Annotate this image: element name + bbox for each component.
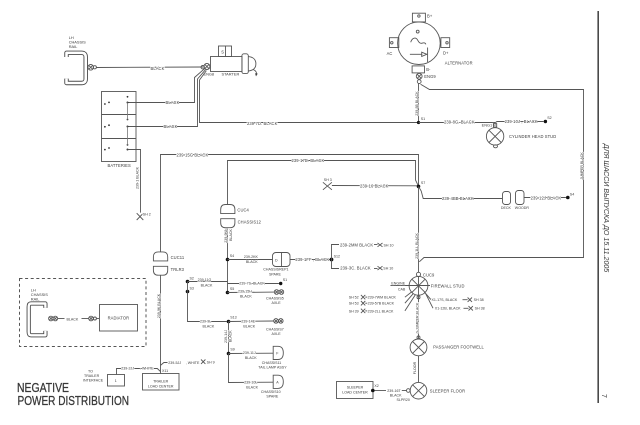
- svg-text:CHASSIS5: CHASSIS5: [266, 296, 284, 300]
- svg-text:BATTERIES: BATTERIES: [108, 163, 132, 168]
- svg-text:239-1 BLACK: 239-1 BLACK: [136, 166, 140, 189]
- svg-text:CUC9: CUC9: [423, 273, 435, 278]
- svg-text:239-2MM BLACK: 239-2MM BLACK: [340, 242, 373, 247]
- svg-text:239-1FF , BLACK: 239-1FF , BLACK: [295, 257, 329, 262]
- svg-text:SH 39: SH 39: [349, 309, 359, 313]
- svg-text:239-2LL BLACK: 239-2LL BLACK: [368, 309, 394, 313]
- svg-text:PASSANGER FOOTWELL: PASSANGER FOOTWELL: [433, 345, 484, 350]
- svg-text:AXLE: AXLE: [272, 301, 282, 305]
- svg-text:S1: S1: [283, 278, 287, 282]
- svg-text:239-8B BLACK: 239-8B BLACK: [415, 91, 419, 116]
- svg-text:S12: S12: [334, 255, 340, 259]
- svg-text:. WHITE: . WHITE: [140, 367, 154, 371]
- svg-text:S2: S2: [190, 276, 194, 280]
- svg-text:239-15H: 239-15H: [238, 290, 252, 294]
- svg-text:BLACK: BLACK: [151, 66, 165, 71]
- svg-text:DECK: DECK: [501, 206, 512, 210]
- svg-text:239-9NN: 239-9NN: [224, 228, 228, 243]
- svg-text:LOAD CENTER: LOAD CENTER: [148, 384, 174, 388]
- svg-text:ДЛЯ ШАССИ ВЫПУСКА ДО 15.11.200: ДЛЯ ШАССИ ВЫПУСКА ДО 15.11.2005: [602, 143, 611, 273]
- svg-text:239-14E: 239-14E: [241, 319, 255, 323]
- svg-text:SPARE: SPARE: [266, 395, 279, 399]
- svg-text:B-: B-: [426, 67, 431, 72]
- svg-text:239-2JJ: 239-2JJ: [121, 367, 134, 371]
- svg-text:SH 52: SH 52: [349, 296, 359, 300]
- svg-text:SLEEPER: SLEEPER: [347, 386, 364, 390]
- svg-text:S4: S4: [570, 192, 574, 196]
- svg-text:SLPR20: SLPR20: [397, 398, 410, 402]
- svg-text:BLACK: BLACK: [229, 229, 233, 241]
- svg-text:ENG1: ENG1: [482, 123, 493, 128]
- svg-text:CAB: CAB: [398, 287, 406, 291]
- svg-text:JUMPER BLACK: JUMPER BLACK: [580, 152, 584, 180]
- svg-text:S13: S13: [230, 315, 236, 319]
- svg-text:SH 38: SH 38: [474, 298, 484, 302]
- svg-text:X1-17S, BLACK: X1-17S, BLACK: [432, 298, 458, 302]
- svg-text:B+: B+: [427, 14, 433, 19]
- svg-text:RAIL: RAIL: [69, 44, 78, 49]
- svg-text:BLACK: BLACK: [390, 394, 402, 398]
- svg-text:BLACK: BLACK: [166, 100, 180, 105]
- svg-text:239-12J BLACK: 239-12J BLACK: [531, 195, 562, 200]
- svg-text:239-3C. BLACK: 239-3C. BLACK: [340, 266, 371, 271]
- svg-text:SH 2: SH 2: [143, 213, 151, 217]
- svg-text:CHASSIS11: CHASSIS11: [262, 361, 282, 365]
- svg-text:D: D: [275, 258, 278, 262]
- svg-text:239-9L: 239-9L: [200, 319, 211, 323]
- svg-text:CUC11: CUC11: [171, 255, 185, 260]
- svg-text:RAIL: RAIL: [31, 296, 40, 301]
- svg-text:FLOOR: FLOOR: [413, 361, 417, 374]
- svg-text:239-14J: 239-14J: [224, 330, 228, 343]
- svg-text:CHASSIS12: CHASSIS12: [238, 220, 262, 225]
- svg-text:TAIL LAMP ASSY: TAIL LAMP ASSY: [258, 366, 287, 370]
- svg-text:239-11G: 239-11G: [198, 278, 212, 282]
- svg-text:SH 10: SH 10: [383, 267, 393, 271]
- svg-text:239-7D. BLACK: 239-7D. BLACK: [247, 121, 278, 126]
- svg-text:239-11J: 239-11J: [243, 351, 256, 355]
- svg-text:BLACK: BLACK: [67, 317, 79, 321]
- svg-text:ENG9: ENG9: [424, 74, 436, 79]
- svg-text:239-10L: 239-10L: [244, 380, 257, 384]
- svg-text:BLACK: BLACK: [245, 356, 257, 360]
- svg-text:FIREWALL STUD: FIREWALL STUD: [431, 283, 465, 288]
- svg-text:S4: S4: [230, 254, 234, 258]
- svg-text:, WHITE: , WHITE: [186, 361, 200, 365]
- svg-text:TRAILER: TRAILER: [153, 380, 169, 384]
- svg-text:BLACK: BLACK: [164, 124, 178, 129]
- svg-text:POWER DISTRIBUTION: POWER DISTRIBUTION: [18, 393, 130, 408]
- svg-text:D+: D+: [443, 51, 449, 56]
- svg-text:BLACK: BLACK: [201, 284, 213, 288]
- svg-text:7: 7: [600, 394, 607, 398]
- svg-text:239-15G BLACK: 239-15G BLACK: [177, 153, 209, 158]
- svg-text:239-2KK: 239-2KK: [244, 255, 259, 259]
- svg-text:S9: S9: [230, 348, 234, 352]
- svg-text:SPARE: SPARE: [269, 272, 282, 276]
- svg-text:S: S: [221, 50, 224, 55]
- svg-text:AC: AC: [387, 51, 393, 56]
- svg-text:239-7S. BLACK: 239-7S. BLACK: [239, 282, 265, 286]
- svg-text:X1-12B, BLACK: X1-12B, BLACK: [435, 307, 461, 311]
- svg-text:CUC4: CUC4: [237, 208, 249, 213]
- svg-text:S3: S3: [190, 286, 194, 290]
- svg-text:CYLINDER HEAD STUD: CYLINDER HEAD STUD: [509, 134, 556, 139]
- svg-text:239-1LL BLACK: 239-1LL BLACK: [415, 232, 419, 258]
- svg-text:BLACK: BLACK: [203, 324, 215, 328]
- svg-text:SH 38: SH 38: [475, 307, 485, 311]
- svg-text:X2: X2: [374, 384, 378, 388]
- svg-text:SH 3: SH 3: [324, 178, 332, 182]
- svg-text:0-JUMPER BLACK: 0-JUMPER BLACK: [415, 302, 419, 333]
- svg-text:239-16 BLACK: 239-16 BLACK: [360, 183, 389, 188]
- svg-text:239-9K BLACK: 239-9K BLACK: [157, 293, 161, 318]
- svg-text:239-5JJ: 239-5JJ: [168, 361, 181, 365]
- svg-text:1: 1: [115, 379, 117, 383]
- svg-text:239-57B BLACK: 239-57B BLACK: [368, 302, 395, 306]
- svg-text:X11: X11: [162, 369, 168, 373]
- svg-text:SH 53: SH 53: [349, 302, 359, 306]
- svg-text:SLEEPER FLOOR: SLEEPER FLOOR: [430, 388, 465, 393]
- svg-text:STARTER: STARTER: [222, 72, 240, 77]
- svg-text:ENGINE: ENGINE: [391, 281, 405, 285]
- svg-text:BLACK: BLACK: [229, 330, 233, 342]
- svg-text:AXLE: AXLE: [272, 332, 282, 336]
- svg-text:TRLR3: TRLR3: [171, 267, 185, 272]
- svg-text:239-8G. BLACK: 239-8G. BLACK: [444, 119, 475, 124]
- svg-text:239-10J , BLACK: 239-10J , BLACK: [505, 119, 538, 124]
- svg-text:239-16T: 239-16T: [387, 389, 401, 393]
- svg-text:239-4BB BLACK: 239-4BB BLACK: [442, 196, 474, 201]
- svg-text:SH 10: SH 10: [384, 243, 394, 247]
- svg-text:ALTERNATOR: ALTERNATOR: [445, 61, 473, 66]
- svg-text:CHASSIS7: CHASSIS7: [266, 328, 284, 332]
- svg-text:BLACK: BLACK: [246, 385, 258, 389]
- svg-text:SH 9: SH 9: [207, 361, 215, 365]
- svg-text:S1: S1: [421, 117, 425, 121]
- svg-text:S5: S5: [230, 287, 234, 291]
- svg-text:WOODR: WOODR: [515, 206, 530, 210]
- svg-text:TRAILER: TRAILER: [84, 374, 100, 378]
- svg-text:BLACK: BLACK: [240, 295, 252, 299]
- svg-text:LOAD CENTER: LOAD CENTER: [342, 390, 368, 394]
- svg-text:INTERFACE: INTERFACE: [83, 378, 104, 382]
- svg-text:TO: TO: [88, 370, 93, 374]
- svg-text:BLACK: BLACK: [243, 324, 255, 328]
- svg-text:CHASSIS10: CHASSIS10: [261, 390, 281, 394]
- svg-text:RADIATOR: RADIATOR: [108, 316, 130, 321]
- svg-text:239-17D. BLACK: 239-17D. BLACK: [292, 158, 325, 163]
- svg-text:S2: S2: [547, 116, 551, 120]
- svg-text:CHASSISREP1: CHASSISREP1: [263, 268, 288, 272]
- svg-text:239-7WM BLACK: 239-7WM BLACK: [368, 296, 397, 300]
- svg-text:BLACK: BLACK: [246, 260, 258, 264]
- svg-text:S7: S7: [421, 181, 425, 185]
